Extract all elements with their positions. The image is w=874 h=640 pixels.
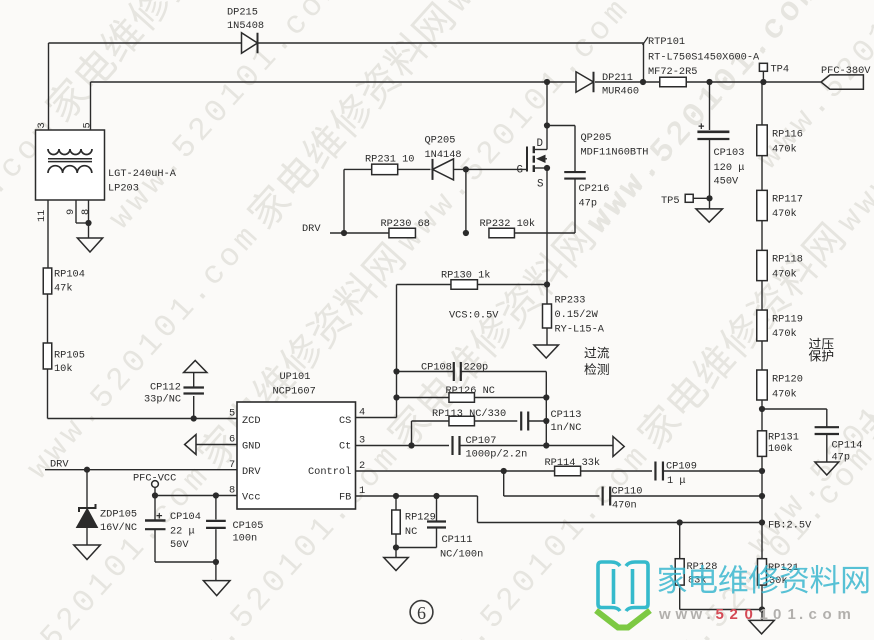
node gate junction bbox=[463, 166, 469, 172]
wire drain to main line bbox=[546, 82, 548, 126]
thermistor RTP101 MF72-2R5 bbox=[660, 77, 687, 87]
svg-text:100k: 100k bbox=[768, 443, 793, 455]
resistor RP120 bbox=[757, 370, 768, 400]
resistor RP130 bbox=[451, 280, 478, 290]
node CP110 right bbox=[759, 493, 765, 499]
capacitor CP104 bbox=[154, 496, 156, 520]
capacitor CP103 bbox=[709, 82, 711, 130]
svg-text:47p: 47p bbox=[579, 198, 598, 210]
node Ct row CP row junction bbox=[543, 442, 549, 448]
svg-text:CP104: CP104 bbox=[170, 511, 201, 523]
node RP126 right bbox=[543, 394, 549, 400]
node RP129/CP111 gnd junction bbox=[393, 544, 399, 550]
pin 8 wire bbox=[88, 200, 90, 238]
resistor RP119 bbox=[757, 310, 768, 341]
diode QP205 1N4148 bbox=[433, 159, 454, 180]
svg-text:11: 11 bbox=[36, 210, 48, 222]
resistor RP105 bbox=[43, 343, 52, 369]
svg-text:RP126 NC: RP126 NC bbox=[446, 385, 495, 397]
node TP4 tap bbox=[760, 79, 766, 85]
svg-text:UP101: UP101 bbox=[280, 371, 311, 383]
svg-text:PFC-VCC: PFC-VCC bbox=[133, 473, 176, 485]
node CP103 tap bbox=[706, 79, 712, 85]
svg-text:+: + bbox=[698, 122, 705, 134]
node RP128 gnd junction bbox=[759, 606, 765, 612]
resistor RP113 bbox=[412, 420, 450, 422]
node pin8/9 junction bbox=[85, 220, 91, 226]
node drain junction on main line bbox=[544, 79, 550, 85]
svg-text:RP233: RP233 bbox=[555, 295, 586, 307]
node Ct row RP113 junction bbox=[408, 442, 414, 448]
resistor RP231 bbox=[372, 164, 398, 175]
capacitor CP114 bbox=[762, 408, 827, 410]
node RP130/RP233 junction bbox=[544, 281, 550, 287]
svg-text:+: + bbox=[156, 512, 163, 524]
svg-text:NC/100n: NC/100n bbox=[440, 549, 483, 561]
capacitor CP113 bbox=[520, 412, 522, 431]
svg-text:RP120: RP120 bbox=[772, 374, 803, 386]
wire CP110 row bbox=[504, 495, 600, 497]
svg-text:5: 5 bbox=[82, 122, 94, 128]
wire DRV row bbox=[45, 469, 237, 471]
resistor RP230 bbox=[389, 228, 416, 238]
pin 9 wire bbox=[75, 200, 77, 223]
svg-text:LGT-240uH-A: LGT-240uH-A bbox=[108, 168, 177, 180]
node FB 2.5V bbox=[759, 519, 765, 525]
svg-text:GND: GND bbox=[242, 441, 261, 453]
svg-text:220p: 220p bbox=[464, 362, 489, 374]
svg-text:3: 3 bbox=[36, 122, 48, 128]
wire RP119-RP120 bbox=[761, 341, 763, 370]
ground below ZDP105 bbox=[74, 545, 101, 560]
svg-text:RP114 33k: RP114 33k bbox=[545, 457, 601, 469]
svg-text:33p/NC: 33p/NC bbox=[144, 394, 181, 406]
wire FB pin row bbox=[356, 495, 478, 497]
resistor RP118 bbox=[757, 250, 768, 280]
resistor RP121 bbox=[758, 559, 767, 585]
node PFC-VCC open terminal bbox=[152, 481, 159, 488]
svg-text:470k: 470k bbox=[772, 269, 797, 281]
svg-text:RP131: RP131 bbox=[768, 432, 799, 444]
svg-text:CP216: CP216 bbox=[579, 183, 610, 195]
capacitor CP109 bbox=[654, 462, 656, 481]
capacitor CP111 bbox=[436, 496, 438, 521]
wire RP121 to ground bbox=[761, 585, 763, 620]
svg-text:1N4148: 1N4148 bbox=[425, 149, 462, 161]
svg-text:DRV: DRV bbox=[302, 223, 321, 235]
wire RP117-RP118 bbox=[761, 221, 763, 251]
node source junction bbox=[544, 165, 550, 171]
svg-text:RTP101: RTP101 bbox=[648, 36, 685, 48]
svg-text:2: 2 bbox=[359, 460, 365, 472]
wire RP231 row bbox=[344, 168, 372, 170]
svg-text:MDF11N60BTH: MDF11N60BTH bbox=[581, 147, 649, 159]
wire gate node vertical bbox=[465, 169, 467, 233]
svg-text:1n/NC: 1n/NC bbox=[551, 422, 582, 434]
node CP105 junction bbox=[213, 492, 219, 498]
inductor LP203 transformer box bbox=[36, 130, 105, 200]
wire RP104 to RP105 bbox=[47, 294, 49, 343]
svg-text:DP215: DP215 bbox=[227, 7, 258, 19]
ground below transformer bbox=[77, 238, 102, 252]
node RP126 row left bbox=[393, 394, 399, 400]
node CP104/CP105 gnd junction bbox=[213, 559, 219, 565]
wire CS pin to vertical bbox=[356, 417, 397, 419]
svg-text:QP205: QP205 bbox=[581, 132, 612, 144]
ground below CP114 bbox=[815, 462, 839, 475]
svg-text:RP117: RP117 bbox=[772, 194, 803, 206]
resistor RP128 bbox=[679, 523, 681, 559]
svg-text:1000p/2.2n: 1000p/2.2n bbox=[466, 449, 528, 461]
svg-text:RY-L15-A: RY-L15-A bbox=[555, 324, 605, 336]
svg-text:RP230 68: RP230 68 bbox=[381, 218, 430, 230]
svg-text:RP105: RP105 bbox=[54, 350, 85, 362]
svg-text:6: 6 bbox=[229, 434, 235, 446]
svg-text:NCP1607: NCP1607 bbox=[273, 386, 316, 398]
svg-text:CP109: CP109 bbox=[666, 461, 697, 473]
node RP129 junction bbox=[393, 493, 399, 499]
svg-text:470n: 470n bbox=[612, 500, 637, 512]
svg-text:1: 1 bbox=[359, 485, 365, 497]
svg-text:NC: NC bbox=[405, 526, 417, 538]
pin 5 wire bbox=[90, 82, 92, 130]
svg-text:TP4: TP4 bbox=[771, 64, 790, 76]
node RP231 branch corner bbox=[341, 230, 347, 236]
svg-text:RP231 10: RP231 10 bbox=[365, 154, 414, 166]
svg-text:CP110: CP110 bbox=[612, 486, 643, 498]
svg-text:7: 7 bbox=[229, 459, 235, 471]
logo text bbox=[658, 565, 868, 594]
node ZCD/CP112 junction bbox=[191, 415, 197, 421]
node Control/CP110 junction bbox=[501, 468, 507, 474]
node drain/CP216 junction bbox=[544, 122, 550, 128]
svg-text:Ct: Ct bbox=[339, 441, 351, 453]
svg-text:RT-L750S1450X600-A: RT-L750S1450X600-A bbox=[648, 51, 760, 63]
ground below RP129 bbox=[395, 548, 397, 558]
test point TP4 bbox=[762, 71, 764, 82]
svg-text:LP203: LP203 bbox=[108, 183, 139, 195]
resistor RP126 bbox=[397, 397, 450, 399]
svg-text:MUR460: MUR460 bbox=[602, 86, 639, 98]
ground bottom right bbox=[749, 620, 774, 634]
svg-text:1N5408: 1N5408 bbox=[227, 20, 264, 32]
svg-text:0.15/2W: 0.15/2W bbox=[555, 309, 599, 321]
ground below CP103 bbox=[709, 198, 711, 209]
svg-text:100n: 100n bbox=[233, 533, 258, 545]
node CP109 right bbox=[759, 468, 765, 474]
svg-text:10k: 10k bbox=[54, 363, 73, 375]
svg-text:22 μ: 22 μ bbox=[170, 526, 195, 538]
wire source down to RP130 row bbox=[546, 168, 548, 285]
resistor RP232 bbox=[489, 228, 515, 238]
node CP111 junction bbox=[433, 493, 439, 499]
wire RP131 to FB node bbox=[761, 456, 763, 558]
node CP104 junction bbox=[152, 492, 158, 498]
svg-text:470k: 470k bbox=[772, 328, 797, 340]
node ZDP105 junction bbox=[84, 467, 90, 473]
label overcurrent detect bbox=[584, 347, 609, 359]
svg-text:FB: FB bbox=[339, 492, 351, 504]
node CP114 branch bbox=[759, 406, 765, 412]
svg-text:G: G bbox=[517, 165, 523, 177]
node TP5 junction bbox=[706, 195, 712, 201]
svg-text:RP232 10k: RP232 10k bbox=[480, 218, 536, 230]
svg-text:RP130 1k: RP130 1k bbox=[441, 270, 490, 282]
svg-text:QP205: QP205 bbox=[425, 135, 456, 147]
wire CP110 branch vertical bbox=[503, 471, 505, 496]
svg-text:8: 8 bbox=[229, 485, 235, 497]
wire RP105 to ZCD row bbox=[47, 369, 49, 419]
svg-text:ZDP105: ZDP105 bbox=[100, 509, 137, 521]
resistor RP233 bbox=[546, 285, 548, 305]
svg-text:16V/NC: 16V/NC bbox=[100, 522, 137, 534]
pin 11 wire bbox=[47, 200, 49, 268]
wire DRV to RP230 bbox=[330, 232, 389, 234]
wire RP231 to diode bbox=[398, 168, 431, 170]
svg-text:ZCD: ZCD bbox=[242, 415, 261, 427]
capacitor CP216 bbox=[547, 125, 575, 127]
svg-text:450V: 450V bbox=[714, 176, 740, 188]
node CP113 right bbox=[543, 418, 549, 424]
svg-text:DRV: DRV bbox=[242, 466, 261, 478]
wire RP232 to CP216 bottom bbox=[515, 232, 576, 234]
svg-text:RP104: RP104 bbox=[54, 269, 85, 281]
svg-text:CS: CS bbox=[339, 415, 351, 427]
svg-text:D: D bbox=[537, 138, 543, 150]
wire right column top bbox=[761, 82, 763, 125]
capacitor CP105 bbox=[215, 496, 217, 520]
svg-text:120 μ: 120 μ bbox=[714, 162, 745, 174]
svg-text:RP116: RP116 bbox=[772, 129, 803, 141]
off-page arrow above CP112 bbox=[184, 361, 207, 373]
wire RP116-RP117 bbox=[761, 156, 763, 191]
svg-text:CP111: CP111 bbox=[442, 534, 473, 546]
svg-text:CP108: CP108 bbox=[421, 362, 452, 374]
wire diode to gate bbox=[454, 168, 527, 170]
wire CS vertical bbox=[396, 285, 398, 418]
wire Control row bbox=[356, 470, 555, 472]
pin 3 wire bbox=[48, 43, 50, 130]
svg-text:CP103: CP103 bbox=[714, 147, 745, 159]
node RP230/RP232 junction bbox=[463, 230, 469, 236]
node DP215/DP211 merge bbox=[640, 79, 646, 85]
node CP108 row left bbox=[393, 368, 399, 374]
resistor RP116 bbox=[757, 125, 768, 156]
svg-text:FB:2.5V: FB:2.5V bbox=[768, 520, 812, 532]
wire RP231 left vertical bbox=[343, 169, 345, 233]
wire RP120 to RP131 bbox=[761, 400, 763, 431]
resistor RP129 bbox=[395, 496, 397, 510]
svg-text:CP107: CP107 bbox=[466, 435, 497, 447]
svg-text:9: 9 bbox=[65, 209, 77, 215]
resistor RP131 bbox=[758, 431, 767, 457]
capacitor CP112 bbox=[193, 396, 195, 419]
svg-text:47k: 47k bbox=[54, 283, 73, 295]
off-page arrow Ct row bbox=[613, 437, 624, 457]
wire Ct row bbox=[356, 445, 450, 447]
svg-text:470k: 470k bbox=[772, 144, 797, 156]
diode DP211 bbox=[576, 72, 594, 93]
wire main boost output line bbox=[91, 81, 576, 83]
wire RP118-RP119 bbox=[761, 281, 763, 310]
wire Vcc row bbox=[155, 495, 237, 497]
ground below RP233 bbox=[534, 345, 559, 358]
wire top bypass from pin3 to output node bbox=[49, 42, 242, 44]
svg-text:CP112: CP112 bbox=[150, 382, 181, 394]
zener ZDP105 bbox=[86, 470, 88, 508]
wire CP108 right vertical bbox=[545, 372, 547, 446]
capacitor CP110 bbox=[602, 487, 604, 506]
svg-text:50V: 50V bbox=[170, 539, 189, 551]
wire FB step down bbox=[477, 496, 479, 523]
page number 6 bbox=[410, 601, 433, 624]
svg-text:470k: 470k bbox=[772, 208, 797, 220]
svg-text:S: S bbox=[537, 179, 543, 191]
svg-text:5: 5 bbox=[229, 408, 235, 420]
svg-text:CP113: CP113 bbox=[551, 409, 582, 421]
svg-text:6: 6 bbox=[417, 603, 426, 623]
test point TP5 bbox=[693, 197, 709, 199]
svg-text:RP118: RP118 bbox=[772, 254, 803, 266]
svg-text:CP114: CP114 bbox=[832, 440, 863, 452]
resistor RP117 bbox=[757, 190, 768, 220]
svg-text:3: 3 bbox=[359, 435, 365, 447]
resistor RP114 bbox=[555, 466, 581, 476]
svg-text:TP5: TP5 bbox=[661, 195, 680, 207]
off-page arrow GND pin6 bbox=[185, 435, 196, 455]
svg-text:4: 4 bbox=[359, 407, 365, 419]
node RP128 branch bbox=[677, 519, 683, 525]
svg-text:CP105: CP105 bbox=[233, 520, 264, 532]
capacitor CP107 bbox=[451, 436, 453, 455]
diode DP215 bbox=[242, 33, 258, 54]
op-amp U1 controller UP101 NCP1607 bbox=[237, 402, 356, 509]
wire RP113 left vertical bbox=[411, 421, 413, 446]
wire RP130 row bbox=[397, 284, 452, 286]
svg-text:Vcc: Vcc bbox=[242, 492, 261, 504]
svg-text:RP119: RP119 bbox=[772, 314, 803, 326]
logo book icon bbox=[598, 562, 648, 611]
wire RP114 to CP109 bbox=[581, 470, 652, 472]
svg-text:8: 8 bbox=[80, 209, 92, 215]
svg-text:RP113 NC/330: RP113 NC/330 bbox=[432, 408, 506, 420]
svg-text:VCS:0.5V: VCS:0.5V bbox=[449, 310, 499, 322]
svg-text:DRV: DRV bbox=[50, 459, 69, 471]
svg-text:DP211: DP211 bbox=[602, 72, 633, 84]
svg-text:470k: 470k bbox=[772, 389, 797, 401]
resistor RP104 bbox=[43, 268, 52, 294]
capacitor CP108 bbox=[397, 371, 454, 373]
ground below CP105 bbox=[203, 581, 230, 596]
transistor Q1 QP205 MOSFET bbox=[526, 147, 528, 172]
svg-text:MF72-2R5: MF72-2R5 bbox=[648, 66, 697, 78]
wire FB row to node bbox=[478, 522, 763, 524]
svg-text:1 μ: 1 μ bbox=[667, 475, 686, 487]
label overvoltage protect bbox=[809, 338, 834, 350]
svg-text:Control: Control bbox=[308, 466, 351, 478]
